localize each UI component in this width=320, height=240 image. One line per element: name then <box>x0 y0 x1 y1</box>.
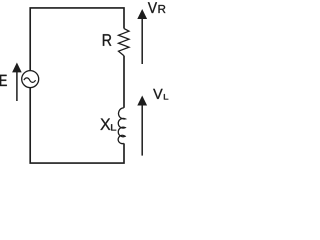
subscript R of VR <box>159 5 166 13</box>
label E <box>0 75 7 86</box>
inductor XL coil <box>118 108 125 144</box>
arrow VR head <box>137 9 147 19</box>
subscript L of XL <box>111 124 116 130</box>
arrow VL head <box>137 96 147 106</box>
wire: left lower + bottom + right lower segment <box>30 88 124 163</box>
AC source E circle <box>22 71 39 88</box>
subscript L of VL <box>164 94 168 99</box>
label V of VL <box>153 89 162 99</box>
label R <box>103 34 111 46</box>
arrow E head <box>12 63 22 73</box>
arrow E (source voltage, shaft) <box>12 63 22 102</box>
label X of XL <box>100 119 110 130</box>
wire: right middle segment between resistor and inductor <box>123 56 125 108</box>
AC source sine symbol <box>24 78 36 83</box>
wire: left upper + top + right upper segment <box>30 8 124 71</box>
arrow VR (resistor voltage, shaft) <box>137 9 147 64</box>
resistor R zigzag <box>119 28 130 55</box>
arrow VL (inductor voltage, shaft) <box>137 96 147 156</box>
label V of VR <box>148 2 157 13</box>
